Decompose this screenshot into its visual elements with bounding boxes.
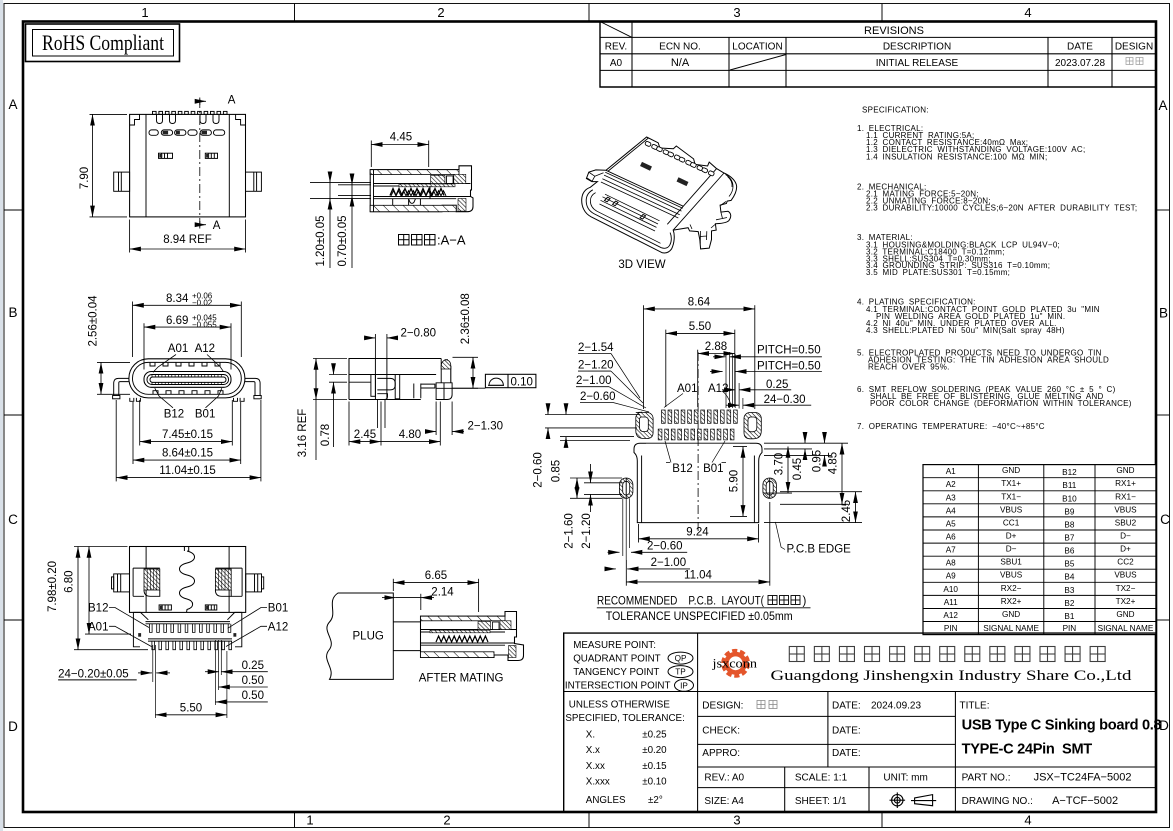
svg-text:D−: D−	[1120, 532, 1131, 541]
svg-text:B4: B4	[1064, 573, 1074, 582]
top view side tab right	[246, 172, 262, 191]
section inner verticals	[393, 186, 430, 205]
svg-text:JSX−TC24FA−5002: JSX−TC24FA−5002	[1034, 772, 1132, 784]
left page edge shading	[0, 0, 3, 831]
svg-text:A7: A7	[946, 546, 956, 555]
svg-text:±0.15: ±0.15	[642, 761, 667, 772]
QP oval	[668, 652, 693, 664]
section label (CJK)+A-A	[399, 235, 436, 246]
svg-text:3.5 MID PLATE:SUS301 T=0.15: 3.5 MID PLATE:SUS301 T=0.15mm;	[866, 268, 1010, 277]
svg-text:SIZE: A4: SIZE: A4	[704, 796, 744, 807]
svg-text:PIN: PIN	[1063, 624, 1077, 633]
svg-text:DESIGN:: DESIGN:	[702, 701, 743, 712]
svg-text:GND: GND	[1002, 610, 1020, 619]
3d stadium inner ring	[586, 190, 671, 248]
side central leg	[374, 359, 376, 400]
svg-text:2−0.60: 2−0.60	[533, 452, 545, 488]
leader B12	[155, 388, 173, 408]
svg-text:DESIGN: DESIGN	[1115, 42, 1153, 53]
TP oval	[668, 666, 693, 678]
svg-text:A3: A3	[946, 493, 956, 502]
pcb pads row B	[658, 429, 734, 440]
svg-text:SIGNAL NAME: SIGNAL NAME	[1098, 624, 1154, 633]
svg-text:jsxconn: jsxconn	[711, 656, 757, 670]
3d body silhouette	[582, 137, 737, 253]
pin stems for 24-0.20	[153, 645, 156, 718]
top view slot dark marks	[163, 131, 207, 135]
receptacle bottom band	[421, 652, 495, 658]
pcb dim 4.85	[841, 443, 843, 504]
zone tick top 2/3	[588, 4, 590, 22]
pcb shield pad top-left	[636, 412, 653, 438]
svg-text:INTERSECTION POINT: INTERSECTION POINT	[565, 681, 671, 692]
svg-text:4.45: 4.45	[390, 132, 412, 144]
svg-text:VBUS: VBUS	[1114, 571, 1137, 580]
svg-text:−0.055: −0.055	[192, 320, 217, 329]
svg-text:SHEET: 1/1: SHEET: 1/1	[795, 796, 847, 807]
dim 7.45 ext	[139, 400, 141, 446]
right pin stems	[215, 640, 227, 718]
section left wall	[373, 170, 375, 212]
svg-text:A0: A0	[610, 58, 623, 69]
dim 0.50 b	[215, 701, 267, 703]
svg-text:A: A	[228, 94, 236, 106]
svg-text:0.50: 0.50	[242, 690, 264, 702]
pcb shield pad top-right	[744, 412, 761, 438]
front right foot	[254, 396, 261, 399]
svg-text:2024.09.23: 2024.09.23	[871, 701, 921, 712]
pcb pads row A	[662, 410, 738, 423]
IP oval	[675, 679, 694, 691]
pcb left dims 2-0.60 / 0.85	[545, 414, 640, 416]
svg-text:0.95: 0.95	[812, 450, 824, 472]
svg-text:D+: D+	[1006, 532, 1017, 541]
svg-text:P.C.B EDGE: P.C.B EDGE	[787, 544, 852, 556]
pcb shield pad bottom-left	[619, 478, 633, 498]
revisions row line 2	[600, 53, 1156, 55]
3d right ear inner	[721, 175, 734, 206]
flatness leader	[452, 387, 485, 389]
section right hatched block 2	[454, 174, 466, 183]
dim 7.90	[90, 113, 128, 115]
svg-text:IP: IP	[680, 681, 688, 690]
zone tick bottom 3/4	[881, 812, 883, 828]
svg-text:SPECIFICATION:: SPECIFICATION:	[862, 106, 929, 115]
svg-text:24−0.30: 24−0.30	[764, 394, 806, 406]
pcb shield pad bottom-right	[763, 478, 777, 498]
svg-text:5.90: 5.90	[729, 470, 741, 492]
svg-text:RX1−: RX1−	[1115, 492, 1136, 501]
pin table grid	[923, 465, 1156, 635]
designer name stamp (CJK)	[1126, 58, 1143, 65]
pin table text	[943, 466, 1153, 633]
svg-text:1: 1	[306, 813, 313, 828]
revisions col LOCATION	[785, 37, 787, 87]
dim 11.04 line	[116, 477, 261, 479]
RoHS Compliant box inner	[33, 30, 174, 57]
svg-text:TX1+: TX1+	[1001, 479, 1021, 488]
pcb dim 0.45	[804, 436, 806, 443]
top view body	[130, 114, 246, 216]
svg-text:0.10: 0.10	[511, 376, 533, 388]
svg-text:0.25: 0.25	[766, 379, 788, 391]
dim 2.36 line	[472, 357, 474, 388]
top view side tab left	[114, 172, 130, 191]
dim 2.14	[420, 594, 422, 610]
section inner line 4	[374, 198, 457, 200]
dim 0.70 line	[351, 185, 353, 268]
side front bar	[440, 359, 442, 383]
dim 24-0.20	[138, 672, 152, 674]
svg-text:): )	[803, 596, 807, 608]
measure point texts	[565, 640, 671, 692]
svg-text:SBU2: SBU2	[1115, 518, 1137, 527]
svg-text:UNLESS OTHERWISE: UNLESS OTHERWISE	[569, 700, 671, 711]
section inner line 3	[374, 196, 471, 198]
dim 11.04 ext	[115, 400, 117, 481]
section contact zigzag	[390, 189, 444, 196]
zone tick right C/D	[1156, 619, 1170, 621]
svg-text:D: D	[8, 719, 18, 734]
svg-text:B8: B8	[1064, 520, 1074, 529]
revisions row line 3	[600, 69, 1156, 71]
side left clip	[371, 375, 376, 397]
svg-text:SBU1: SBU1	[1000, 558, 1022, 567]
designer name CJK small gray	[757, 701, 777, 709]
top view corner step right	[236, 114, 246, 125]
pcb dim 2.88	[697, 350, 699, 407]
zone tick left C/D	[4, 619, 23, 621]
pcb dim 3.70	[787, 447, 789, 494]
svg-text:PITCH=0.50: PITCH=0.50	[757, 361, 821, 373]
dim 8.64 line	[133, 459, 241, 461]
svg-text:POOR COLOR CHANGE (DEFORMAT: POOR COLOR CHANGE (DEFORMATION WITHIN TO…	[870, 399, 1132, 408]
top view teeth row	[153, 111, 228, 114]
svg-text:DATE:: DATE:	[832, 726, 861, 737]
band divider	[564, 691, 1156, 693]
projection symbol cone	[911, 795, 936, 806]
svg-text:2.88: 2.88	[705, 341, 727, 353]
svg-text:N/A: N/A	[671, 57, 690, 69]
3d rear leg inner	[716, 212, 727, 220]
svg-text:2−0.60: 2−0.60	[647, 541, 683, 553]
3d back-left edge double	[608, 138, 649, 171]
top view slot row	[149, 130, 225, 135]
3d pin slot pairs on top	[645, 141, 715, 176]
svg-text:C: C	[8, 512, 18, 527]
dim 7.98	[74, 546, 128, 548]
front shell inner	[133, 362, 242, 394]
svg-text:±2°: ±2°	[648, 795, 663, 806]
front left leg	[114, 378, 129, 395]
svg-text:8.34: 8.34	[166, 293, 189, 305]
3d tongue lines	[600, 194, 660, 231]
dim 7.45 line	[140, 441, 233, 443]
svg-text:CC1: CC1	[1003, 518, 1020, 527]
leader A12	[207, 355, 223, 372]
svg-text:A11: A11	[944, 598, 958, 607]
svg-text:8.94 REF: 8.94 REF	[163, 234, 212, 246]
3d tongue notches	[605, 197, 646, 219]
svg-text:B12: B12	[1062, 468, 1077, 477]
flatness frame	[485, 374, 536, 387]
svg-text:DATE:: DATE:	[832, 701, 861, 712]
svg-text:TX2−: TX2−	[1116, 584, 1136, 593]
svg-text:2: 2	[443, 813, 450, 828]
svg-text:2−1.20: 2−1.20	[578, 360, 614, 372]
svg-text:DRAWING NO.:: DRAWING NO.:	[962, 796, 1033, 807]
svg-text:DESCRIPTION: DESCRIPTION	[883, 42, 951, 53]
receptacle section body	[421, 612, 524, 661]
svg-text:0.50: 0.50	[242, 675, 264, 687]
pcb pitch labels	[726, 352, 743, 409]
svg-text:B12: B12	[88, 603, 108, 615]
bottom pin block	[133, 612, 241, 646]
svg-text:7.45±0.15: 7.45±0.15	[162, 429, 213, 441]
svg-text:RX1+: RX1+	[1115, 479, 1136, 488]
svg-text:3: 3	[733, 5, 740, 20]
section right foot hatch	[458, 199, 466, 212]
svg-text:2.45: 2.45	[841, 500, 853, 522]
scale col divider	[784, 767, 786, 812]
svg-text:B: B	[1159, 306, 1168, 321]
title col divider	[954, 692, 956, 813]
front right leg	[245, 378, 260, 395]
svg-text:3D VIEW: 3D VIEW	[618, 259, 665, 271]
svg-text:0.25: 0.25	[242, 660, 264, 672]
dim 2.56 ext	[97, 361, 130, 363]
rev row line	[698, 787, 1156, 789]
dim 1.20 ext lines	[310, 182, 371, 184]
revisions col REV	[631, 22, 633, 88]
svg-text:A12: A12	[268, 621, 288, 633]
svg-text:DATE: DATE	[1067, 42, 1093, 53]
section contact zigzag2	[391, 191, 446, 196]
svg-text:2−0.80: 2−0.80	[401, 328, 437, 340]
svg-text:ANGLES: ANGLES	[586, 795, 626, 806]
front left foot	[113, 396, 120, 399]
bottom center wave cut	[180, 547, 195, 613]
svg-text:SCALE: 1:1: SCALE: 1:1	[795, 773, 848, 784]
pcb board edge top line	[646, 442, 750, 444]
revisions diag corner	[600, 22, 632, 38]
revisions table outline	[600, 22, 1156, 88]
pcb board inner verticals	[641, 456, 643, 523]
side right clip	[395, 375, 400, 399]
svg-text:4: 4	[1024, 5, 1031, 20]
top view slots under edge	[157, 114, 220, 123]
svg-text:A: A	[8, 97, 17, 112]
receptacle inner lines	[421, 629, 517, 631]
dim 8.34 ext	[132, 302, 134, 358]
dim 4.80 line	[381, 441, 440, 443]
design row line	[698, 715, 956, 717]
3d front-top edge D-C	[606, 170, 683, 206]
3d front lip band lines	[601, 172, 683, 218]
side top hook curl	[441, 360, 451, 369]
svg-text:24−0.20±0.05: 24−0.20±0.05	[58, 668, 129, 680]
svg-text:ECN NO.: ECN NO.	[659, 42, 701, 53]
svg-text:GND: GND	[1116, 610, 1134, 619]
svg-text:0.70±0.05: 0.70±0.05	[337, 215, 349, 266]
top view latch windows	[159, 153, 218, 158]
svg-text:A12: A12	[943, 611, 958, 620]
svg-text:PIN: PIN	[944, 624, 958, 633]
svg-text:5.50: 5.50	[180, 703, 202, 715]
svg-text:CHECK:: CHECK:	[702, 726, 740, 737]
side body outline	[349, 359, 441, 400]
svg-text:0.78: 0.78	[320, 424, 332, 446]
dim 3.16 REF	[313, 358, 347, 360]
svg-text:D−: D−	[1006, 545, 1017, 554]
dim 2-0.80 arrows	[364, 337, 375, 339]
svg-text:X.x: X.x	[586, 745, 600, 756]
pcb dim 11.04	[625, 560, 627, 586]
revisions col ECN	[728, 37, 730, 87]
svg-text:GND: GND	[1116, 466, 1134, 475]
zone tick top 1/2	[294, 4, 296, 22]
bottom pin block steps	[133, 612, 241, 619]
svg-text:2−0.60: 2−0.60	[580, 391, 616, 403]
top view corner step left	[130, 114, 140, 125]
section right white square	[446, 176, 453, 184]
bottom body outline	[130, 547, 246, 613]
dim 2.56 line	[100, 362, 102, 394]
svg-text:−0.02: −0.02	[192, 299, 213, 308]
side bottom edge	[349, 399, 421, 401]
pcb dim 0.95	[824, 434, 826, 443]
svg-text:INITIAL RELEASE: INITIAL RELEASE	[876, 58, 959, 69]
3d right edge B-C double	[667, 169, 724, 230]
svg-text:7.90: 7.90	[79, 167, 91, 189]
svg-text:REV.: REV.	[605, 42, 627, 53]
top view inner wall right	[228, 114, 230, 216]
svg-text:Guangdong Jinshengxin Industry: Guangdong Jinshengxin Industry Share Co.…	[771, 668, 1133, 684]
section body outline	[370, 166, 473, 212]
svg-text:A01: A01	[88, 621, 108, 633]
svg-text:X.xxx: X.xxx	[586, 777, 610, 788]
svg-text:B5: B5	[1064, 560, 1074, 569]
projection symbol circle	[890, 792, 906, 808]
bottom side tab right	[246, 574, 264, 592]
svg-text:REACH OVER 95%.: REACH OVER 95%.	[868, 363, 950, 372]
svg-text:3.16 REF: 3.16 REF	[297, 409, 309, 458]
pcb dim 8.64	[643, 305, 645, 409]
svg-text:±0.20: ±0.20	[642, 745, 667, 756]
svg-text:5.50: 5.50	[689, 321, 711, 333]
svg-text:3: 3	[733, 813, 740, 828]
svg-text:4.85: 4.85	[828, 452, 840, 474]
dim 2-0.80 ext	[374, 334, 376, 359]
side contact bend	[377, 378, 395, 390]
svg-text:USB Type C Sinking board 0.8: USB Type C Sinking board 0.8	[962, 718, 1162, 734]
side pad piece	[414, 384, 435, 399]
svg-text:LOCATION: LOCATION	[732, 42, 782, 53]
svg-text:2: 2	[437, 5, 444, 20]
measure box right edge	[697, 633, 699, 812]
pcb centerline	[697, 352, 699, 534]
svg-text:B12: B12	[672, 463, 692, 475]
appro row line	[698, 766, 1156, 768]
svg-text:UNIT: mm: UNIT: mm	[883, 773, 927, 784]
RoHS Compliant box outer	[26, 24, 180, 62]
plug shell lines to receptacle	[393, 621, 420, 623]
svg-text:7.98±0.20: 7.98±0.20	[47, 561, 59, 612]
svg-text:TX1−: TX1−	[1001, 492, 1021, 501]
svg-text:A1: A1	[946, 467, 956, 476]
front tongue outer	[144, 372, 231, 388]
receptacle contact zigzag	[436, 636, 488, 642]
front tongue mid	[147, 375, 229, 385]
svg-text:APPRO:: APPRO:	[702, 748, 740, 759]
svg-text:2.45: 2.45	[354, 429, 376, 441]
svg-text:PLUG: PLUG	[353, 631, 384, 643]
svg-text:GND: GND	[1002, 466, 1020, 475]
front shell pin stubs top	[150, 363, 223, 395]
zone labels top	[141, 5, 1031, 20]
section top wall hatched	[370, 170, 459, 175]
top view inner wall left	[145, 114, 147, 216]
svg-text:1.20±0.05: 1.20±0.05	[315, 215, 327, 266]
date col divider	[827, 692, 829, 768]
svg-text:B2: B2	[1064, 599, 1074, 608]
receptacle top band	[421, 616, 506, 621]
svg-text:A10: A10	[943, 585, 958, 594]
svg-text:VBUS: VBUS	[1000, 571, 1023, 580]
bottom left block	[133, 568, 160, 596]
title block outline	[564, 633, 1156, 812]
side contact foot	[377, 394, 387, 400]
svg-text:3.70: 3.70	[774, 453, 786, 475]
svg-text:DATE:: DATE:	[832, 748, 861, 759]
section inner line 1	[374, 183, 471, 185]
svg-text:SPECIFIED, TOLERANCE:: SPECIFIED, TOLERANCE:	[565, 713, 684, 724]
side inner h line 2	[349, 381, 371, 383]
svg-text:A4: A4	[946, 506, 956, 515]
dim 2.45 line	[349, 441, 381, 443]
svg-text:AFTER MATING: AFTER MATING	[419, 673, 504, 685]
svg-text:2.36±0.08: 2.36±0.08	[460, 293, 472, 344]
svg-text:2−1.00: 2−1.00	[576, 375, 612, 387]
svg-text:±0.25: ±0.25	[642, 730, 667, 741]
svg-text:MEASURE POINT:: MEASURE POINT:	[573, 640, 656, 651]
svg-text:2−1.30: 2−1.30	[468, 421, 504, 433]
svg-text:B10: B10	[1062, 494, 1077, 503]
bottom end squares	[138, 633, 141, 637]
svg-text:4: 4	[1024, 813, 1031, 828]
svg-text:0.85: 0.85	[551, 460, 563, 482]
section terminal strip hatched	[399, 184, 455, 187]
3d window marks	[640, 162, 688, 186]
section bottom wall hatched	[370, 205, 456, 211]
company logo gear	[724, 652, 746, 674]
bottom latch windows	[159, 605, 217, 610]
svg-text:8.64±0.15: 8.64±0.15	[162, 447, 213, 459]
svg-text:VBUS: VBUS	[1000, 505, 1023, 514]
dim 2.36 ext	[453, 356, 479, 358]
svg-text:A12: A12	[195, 343, 215, 355]
pcb dim 9.24	[638, 524, 640, 543]
svg-text:QUADRANT POINT: QUADRANT POINT	[573, 654, 660, 665]
svg-text:B01: B01	[195, 409, 215, 421]
3d stadium inner ring 2	[590, 193, 660, 244]
leader B01	[206, 388, 222, 408]
svg-text:B12: B12	[164, 409, 184, 421]
svg-text:A6: A6	[946, 533, 956, 542]
svg-text:2−1.60: 2−1.60	[564, 513, 576, 549]
svg-text:CC2: CC2	[1117, 558, 1134, 567]
svg-text:QP: QP	[675, 654, 687, 663]
